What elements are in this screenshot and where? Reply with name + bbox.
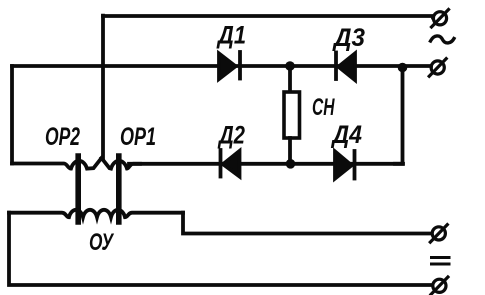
- core bar right: [116, 156, 122, 222]
- diode Д1: [219, 52, 240, 79]
- winding ОУ (control winding): [9, 210, 183, 217]
- svg-text:ОР1: ОР1: [120, 123, 156, 151]
- diode Д3: [336, 53, 355, 81]
- wire left vertical: [10, 66, 14, 164]
- core bar left: [75, 156, 81, 222]
- wire top rail: [103, 16, 433, 18]
- svg-text:Д2: Д2: [217, 122, 245, 150]
- terminal AC2: [429, 59, 446, 76]
- svg-text:Д4: Д4: [331, 121, 362, 149]
- AC symbol ~: [431, 36, 455, 43]
- terminal AC1: [432, 10, 449, 28]
- wire center-tap vertical: [101, 16, 105, 159]
- wire ОУ right to DC terminal: [183, 213, 431, 234]
- node C junction dot: [398, 63, 408, 73]
- node A junction dot: [285, 61, 295, 71]
- svg-text:ОР2: ОР2: [45, 123, 80, 151]
- winding ОР1 (right working winding): [102, 158, 141, 169]
- wire ОУ left loop: [9, 213, 432, 285]
- terminal DC2: [431, 277, 448, 295]
- wire lower diode row: [129, 162, 403, 166]
- DC symbol =: [432, 258, 450, 265]
- winding ОР2 (left working winding): [12, 158, 102, 169]
- svg-text:СН: СН: [312, 94, 335, 121]
- svg-text:Д1: Д1: [216, 22, 246, 50]
- wire right vertical: [395, 68, 403, 164]
- diode Д4: [335, 151, 355, 179]
- diode Д2: [221, 150, 240, 177]
- resistor СН: [284, 66, 300, 164]
- svg-text:Д3: Д3: [332, 24, 365, 52]
- terminal DC1: [430, 225, 447, 243]
- svg-text:ОУ: ОУ: [89, 229, 114, 256]
- node B junction dot: [286, 159, 296, 169]
- wire rail 2: [12, 64, 431, 68]
